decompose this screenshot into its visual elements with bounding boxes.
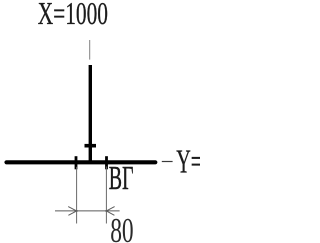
left tick on axis	[75, 156, 78, 169]
grid line Y (thick horizontal axis)	[7, 160, 156, 164]
right tick on axis	[105, 156, 108, 169]
extension line right	[105, 167, 107, 224]
svg-text:ВГ: ВГ	[109, 160, 134, 198]
arrow left (points right at left extension line)	[68, 207, 77, 216]
svg-text:80: 80	[110, 213, 133, 243]
leader line under X label	[89, 40, 91, 60]
dimension line	[55, 210, 120, 212]
svg-text:Y=: Y=	[176, 143, 200, 181]
arrow right (points left at right extension line)	[105, 207, 114, 216]
tick on vertical grid line	[85, 144, 97, 148]
grid line X (thick vertical)	[89, 65, 92, 163]
svg-text:X=1000: X=1000	[38, 0, 108, 31]
dash before Y label	[162, 161, 173, 163]
extension line left	[76, 167, 78, 224]
